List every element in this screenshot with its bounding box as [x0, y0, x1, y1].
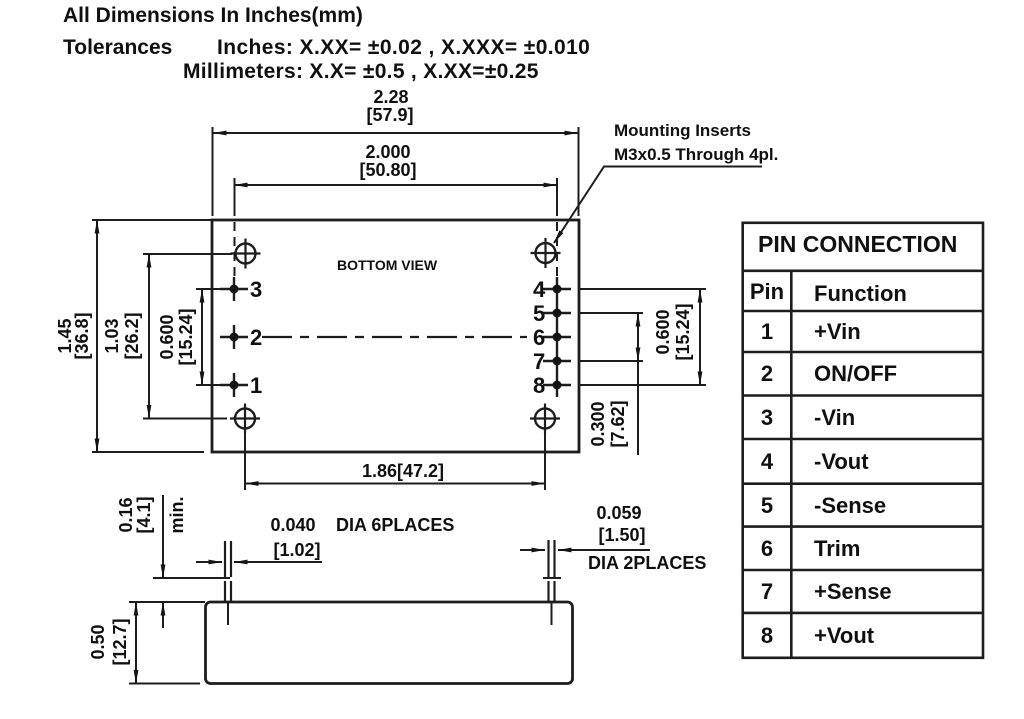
dimension 0.059 [1.50] pin dia 2 places: [520, 503, 706, 573]
svg-text:Function: Function: [814, 281, 907, 306]
svg-text:5: 5: [533, 301, 545, 326]
body outline (bottom view): [212, 220, 579, 452]
svg-text:0.600: 0.600: [157, 314, 177, 359]
svg-text:All Dimensions In Inches(mm): All Dimensions In Inches(mm): [63, 4, 363, 27]
svg-text:0.059: 0.059: [596, 503, 641, 523]
svg-text:ON/OFF: ON/OFF: [814, 361, 897, 386]
svg-text:-Vout: -Vout: [814, 449, 869, 474]
svg-text:min.: min.: [167, 496, 187, 533]
svg-text:5: 5: [761, 493, 773, 518]
svg-text:[7.62]: [7.62]: [608, 400, 628, 447]
svg-text:6: 6: [533, 325, 545, 350]
shoulder line left: [153, 577, 230, 579]
dimension 0.040 [1.02] pin dia: [196, 515, 454, 562]
svg-text:-Sense: -Sense: [814, 493, 886, 518]
svg-text:[57.9]: [57.9]: [366, 105, 413, 125]
mounting hole bottom-right: [530, 404, 560, 434]
dimension 1.45 [36.8] body height: [55, 220, 212, 452]
svg-text:BOTTOM VIEW: BOTTOM VIEW: [337, 257, 438, 273]
svg-text:Tolerances: Tolerances: [63, 36, 172, 59]
svg-text:8: 8: [533, 373, 545, 398]
svg-text:[15.24]: [15.24]: [176, 308, 196, 365]
svg-text:4: 4: [761, 449, 774, 474]
pin 7 cross: [533, 349, 571, 374]
svg-text:Pin: Pin: [750, 279, 784, 304]
svg-text:+Vin: +Vin: [814, 319, 861, 344]
svg-text:[26.2]: [26.2]: [122, 312, 142, 359]
svg-text:1.86[47.2]: 1.86[47.2]: [362, 461, 444, 481]
svg-text:PIN CONNECTION: PIN CONNECTION: [758, 231, 957, 257]
svg-text:1.03: 1.03: [102, 318, 122, 353]
svg-text:7: 7: [533, 349, 545, 374]
svg-text:[36.8]: [36.8]: [72, 312, 92, 359]
svg-text:0.600: 0.600: [653, 309, 673, 354]
title text: dimensions and tolerances notes: [63, 4, 590, 83]
svg-text:Millimeters: X.X= ±0.5 , X.XX=: Millimeters: X.X= ±0.5 , X.XX=±0.25: [183, 60, 539, 83]
mounting hole top-right: [531, 238, 561, 268]
pin 5 cross: [533, 301, 571, 326]
svg-text:8: 8: [761, 623, 773, 648]
pin 2 cross: [220, 325, 262, 350]
svg-text:6: 6: [761, 536, 773, 561]
svg-text:3: 3: [250, 277, 262, 302]
svg-text:0.16: 0.16: [116, 497, 136, 532]
side view body: [206, 602, 573, 684]
svg-text:[4.1]: [4.1]: [134, 496, 154, 533]
svg-text:[15.24]: [15.24]: [673, 303, 693, 360]
svg-text:+Vout: +Vout: [814, 623, 875, 648]
svg-text:0.50: 0.50: [88, 624, 108, 659]
right pin extension lines: [580, 289, 706, 385]
side view right pin: [543, 540, 561, 625]
svg-text:[12.7]: [12.7]: [110, 618, 130, 665]
side body extension lines: [129, 601, 205, 603]
pin connection table: [743, 223, 983, 658]
svg-text:3: 3: [761, 405, 773, 430]
pin 4 cross: [533, 277, 571, 302]
svg-text:+Sense: +Sense: [814, 579, 892, 604]
svg-text:M3x0.5 Through 4pl.: M3x0.5 Through 4pl.: [614, 145, 778, 164]
svg-text:0.040: 0.040: [270, 515, 315, 535]
pin 3 cross: [220, 277, 262, 302]
leader Mounting Inserts: [554, 121, 778, 243]
svg-text:DIA 2PLACES: DIA 2PLACES: [588, 553, 706, 573]
dimension 2.000 [50.80] pin span: [234, 142, 557, 282]
dimension 0.300 [7.62] pins 5-7: [588, 313, 638, 455]
svg-text:2: 2: [250, 325, 262, 350]
svg-text:0.300: 0.300: [588, 401, 608, 446]
svg-text:2: 2: [761, 361, 773, 386]
dimension 0.16 [4.1] min standoff: [116, 495, 187, 628]
svg-text:DIA 6PLACES: DIA 6PLACES: [336, 515, 454, 535]
svg-text:Mounting Inserts: Mounting Inserts: [614, 121, 751, 140]
dimension 1.86 [47.2] hole span horizontal: [245, 432, 545, 490]
svg-text:1: 1: [761, 319, 773, 344]
dimension 2.28 [57.9] body width: [213, 87, 579, 216]
svg-text:2.000: 2.000: [365, 142, 410, 162]
dimension 0.600 [15.24] right pins 4-8: [653, 289, 700, 385]
svg-text:7: 7: [761, 579, 773, 604]
pin 1 cross: [220, 373, 262, 398]
mounting hole top-left: [231, 239, 261, 269]
dimension 1.03 [26.2] hole span vertical: [102, 254, 232, 419]
svg-text:Trim: Trim: [814, 536, 860, 561]
pin 8 cross: [533, 373, 571, 398]
mounting hole bottom-left: [230, 404, 260, 434]
svg-text:[1.02]: [1.02]: [273, 540, 320, 560]
svg-text:[50.80]: [50.80]: [359, 160, 416, 180]
svg-text:-Vin: -Vin: [814, 405, 855, 430]
dimension 0.600 [15.24] left pins span: [157, 289, 222, 385]
pins 4-8 connecting line: [556, 277, 558, 397]
svg-text:1: 1: [250, 373, 262, 398]
side view left pin: [225, 541, 231, 625]
svg-text:2.28: 2.28: [373, 87, 408, 107]
svg-text:4: 4: [533, 277, 546, 302]
svg-text:[1.50]: [1.50]: [598, 525, 645, 545]
center line pin2 to pin6 (dash-dot): [262, 336, 527, 338]
pin 6 cross: [533, 325, 571, 350]
dimension 0.50 [12.7] body height: [88, 602, 136, 684]
svg-text:Inches: X.XX= ±0.02 , X.XXX= ±: Inches: X.XX= ±0.02 , X.XXX= ±0.010: [217, 36, 590, 59]
